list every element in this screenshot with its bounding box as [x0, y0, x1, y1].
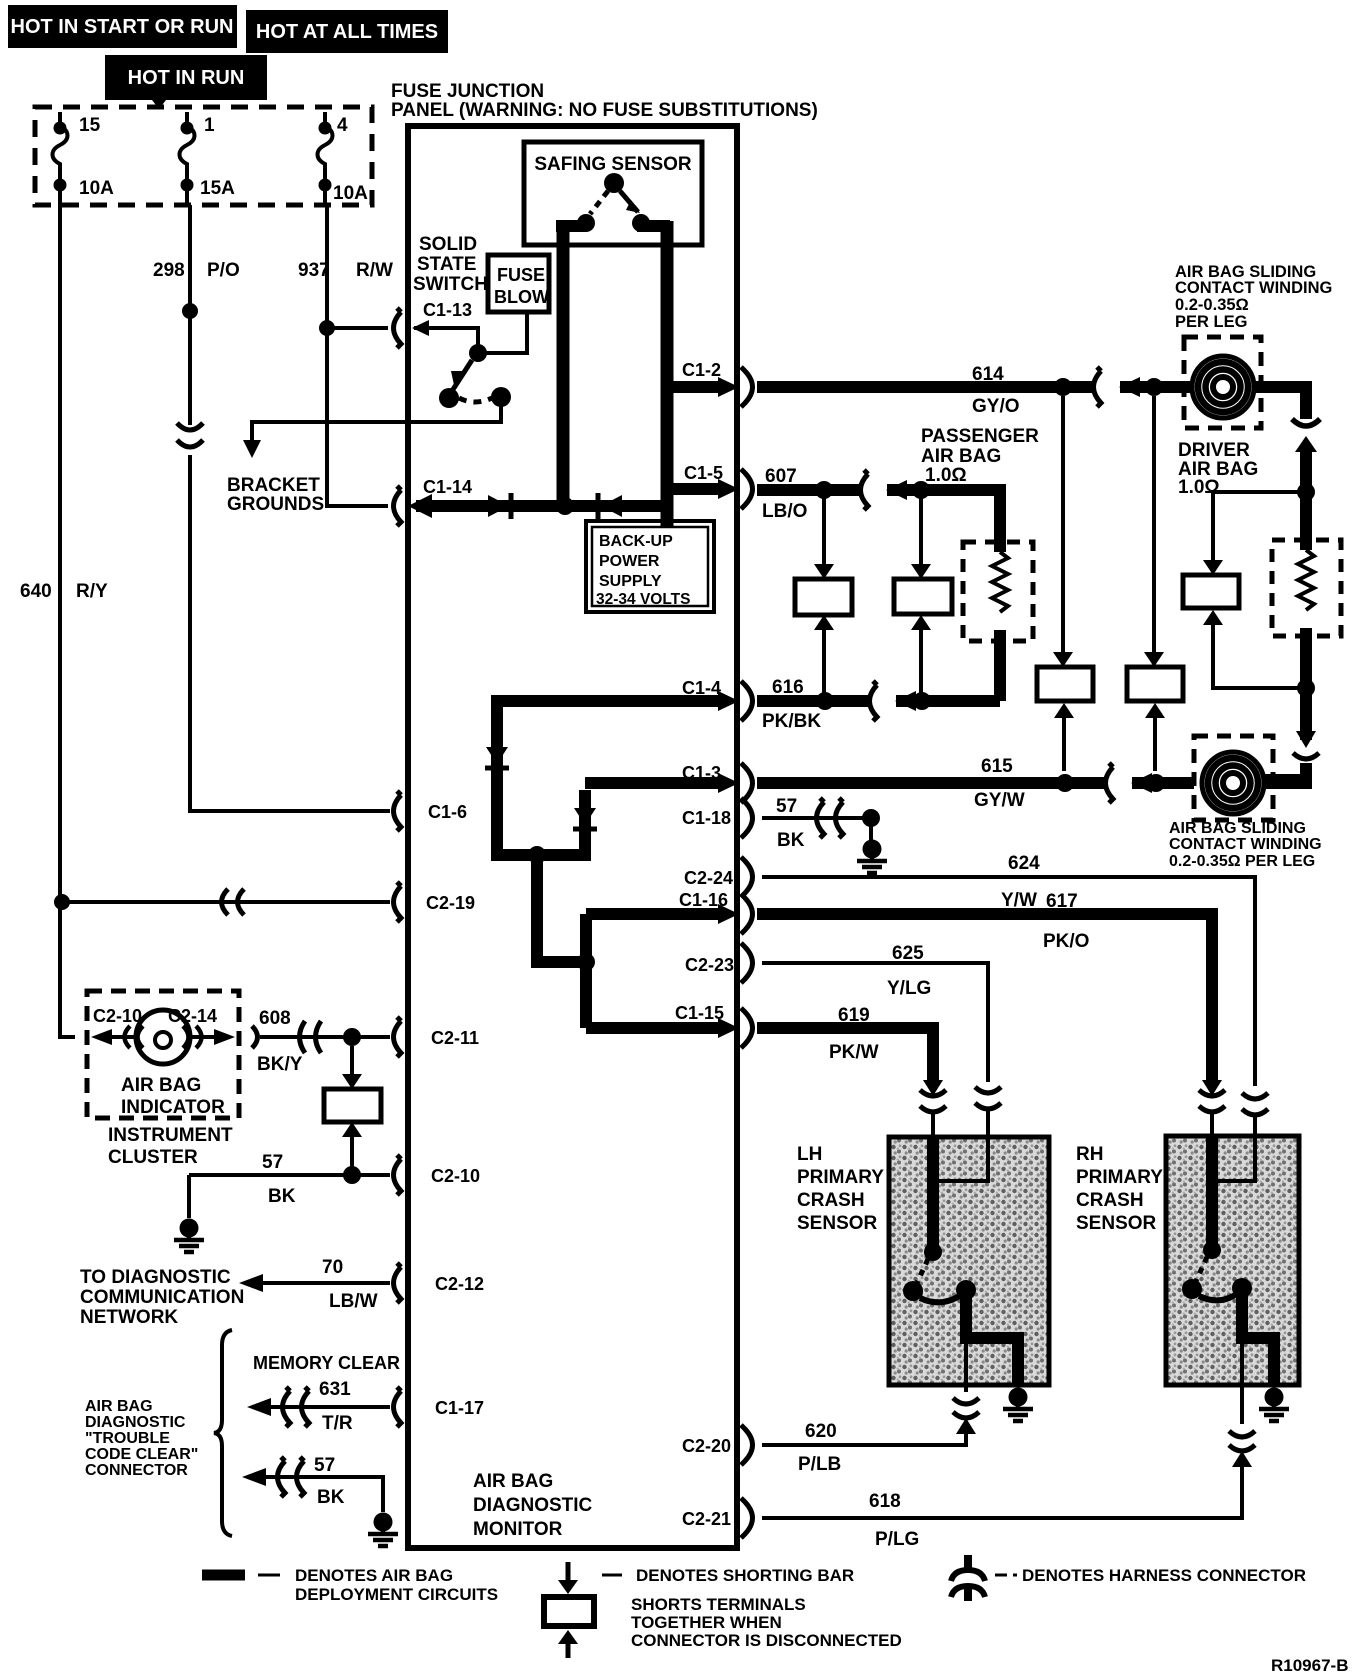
svg-text:608: 608	[259, 1008, 291, 1029]
svg-text:RH: RH	[1076, 1144, 1103, 1165]
svg-text:TOGETHER WHEN: TOGETHER WHEN	[631, 1613, 782, 1632]
svg-text:CRASH: CRASH	[797, 1190, 865, 1211]
svg-text:CODE CLEAR": CODE CLEAR"	[85, 1446, 198, 1463]
svg-text:15: 15	[79, 115, 101, 136]
svg-text:DRIVER: DRIVER	[1178, 440, 1250, 461]
svg-text:C2-20: C2-20	[682, 1436, 731, 1456]
svg-text:HOT AT ALL TIMES: HOT AT ALL TIMES	[256, 21, 438, 43]
svg-text:0.2-0.35Ω: 0.2-0.35Ω	[1175, 296, 1249, 314]
svg-text:298: 298	[153, 260, 185, 281]
svg-text:C2-21: C2-21	[682, 1509, 731, 1529]
svg-text:C2-10: C2-10	[93, 1006, 142, 1026]
svg-text:COMMUNICATION: COMMUNICATION	[80, 1287, 244, 1308]
svg-text:4: 4	[337, 115, 348, 136]
svg-text:617: 617	[1046, 891, 1078, 912]
svg-text:SOLID: SOLID	[419, 234, 477, 255]
svg-text:PK/BK: PK/BK	[762, 711, 821, 732]
svg-text:PANEL (WARNING: NO FUSE SUBSTI: PANEL (WARNING: NO FUSE SUBSTITUTIONS)	[391, 100, 818, 121]
svg-text:DENOTES AIR BAG: DENOTES AIR BAG	[295, 1566, 453, 1585]
svg-text:LB/O: LB/O	[762, 501, 807, 522]
svg-text:70: 70	[322, 1257, 343, 1278]
svg-text:C1-14: C1-14	[423, 477, 472, 497]
svg-text:Y/W: Y/W	[1001, 890, 1037, 911]
svg-text:P/O: P/O	[207, 260, 240, 281]
svg-text:AIR BAG: AIR BAG	[121, 1075, 201, 1096]
svg-text:57: 57	[314, 1455, 335, 1476]
svg-text:SENSOR: SENSOR	[797, 1213, 878, 1234]
svg-text:AIR BAG SLIDING: AIR BAG SLIDING	[1169, 820, 1306, 837]
svg-text:10A: 10A	[333, 183, 368, 204]
svg-text:616: 616	[772, 677, 804, 698]
svg-text:SUPPLY: SUPPLY	[599, 573, 662, 590]
svg-text:R/W: R/W	[356, 260, 393, 281]
svg-text:PASSENGER: PASSENGER	[921, 426, 1039, 447]
svg-text:C1-17: C1-17	[435, 1398, 484, 1418]
svg-text:DENOTES HARNESS CONNECTOR: DENOTES HARNESS CONNECTOR	[1022, 1566, 1306, 1585]
svg-text:MONITOR: MONITOR	[473, 1519, 563, 1540]
svg-text:DIAGNOSTIC: DIAGNOSTIC	[473, 1495, 593, 1516]
svg-text:607: 607	[765, 466, 797, 487]
svg-text:NETWORK: NETWORK	[80, 1307, 178, 1328]
svg-text:FUSE JUNCTION: FUSE JUNCTION	[391, 81, 544, 102]
svg-text:625: 625	[892, 943, 924, 964]
svg-text:PER LEG: PER LEG	[1175, 313, 1247, 331]
svg-text:P/LG: P/LG	[875, 1529, 919, 1550]
svg-text:CONNECTOR: CONNECTOR	[85, 1462, 188, 1479]
svg-text:937: 937	[298, 260, 330, 281]
svg-text:C2-24: C2-24	[684, 868, 733, 888]
svg-text:CLUSTER: CLUSTER	[108, 1147, 198, 1168]
svg-text:618: 618	[869, 1491, 901, 1512]
svg-text:PK/O: PK/O	[1043, 931, 1089, 952]
svg-text:CONNECTOR IS DISCONNECTED: CONNECTOR IS DISCONNECTED	[631, 1631, 902, 1650]
svg-text:32-34 VOLTS: 32-34 VOLTS	[596, 591, 690, 608]
svg-text:C2-23: C2-23	[685, 955, 734, 975]
svg-text:BK/Y: BK/Y	[257, 1054, 303, 1075]
svg-text:BACK-UP: BACK-UP	[599, 533, 673, 550]
svg-text:1.0Ω: 1.0Ω	[925, 465, 967, 486]
svg-text:614: 614	[972, 364, 1004, 385]
svg-text:LB/W: LB/W	[329, 1291, 378, 1312]
svg-text:BLOW: BLOW	[494, 287, 549, 307]
svg-text:POWER: POWER	[599, 553, 660, 570]
svg-text:GY/W: GY/W	[974, 790, 1025, 811]
svg-text:T/R: T/R	[322, 1413, 353, 1434]
svg-text:619: 619	[838, 1005, 870, 1026]
svg-text:LH: LH	[797, 1144, 822, 1165]
svg-text:R10967-B: R10967-B	[1271, 1656, 1349, 1675]
svg-text:631: 631	[319, 1379, 351, 1400]
svg-text:R/Y: R/Y	[76, 581, 108, 602]
svg-text:SAFING SENSOR: SAFING SENSOR	[534, 154, 692, 175]
svg-text:DEPLOYMENT CIRCUITS: DEPLOYMENT CIRCUITS	[295, 1585, 498, 1604]
svg-text:BK: BK	[317, 1487, 345, 1508]
svg-text:BRACKET: BRACKET	[227, 475, 320, 496]
svg-text:AIR BAG: AIR BAG	[921, 446, 1001, 467]
svg-text:C2-14: C2-14	[168, 1006, 217, 1026]
svg-text:57: 57	[262, 1152, 283, 1173]
svg-text:C1-15: C1-15	[675, 1003, 724, 1023]
svg-text:STATE: STATE	[417, 254, 476, 275]
svg-text:FUSE: FUSE	[497, 265, 545, 285]
svg-text:0.2-0.35Ω PER LEG: 0.2-0.35Ω PER LEG	[1169, 853, 1315, 870]
svg-text:57: 57	[776, 796, 797, 817]
svg-text:CONTACT WINDING: CONTACT WINDING	[1169, 836, 1322, 853]
svg-text:C1-2: C1-2	[682, 360, 721, 380]
svg-text:C1-18: C1-18	[682, 808, 731, 828]
svg-text:C1-13: C1-13	[423, 300, 472, 320]
svg-text:AIR BAG: AIR BAG	[85, 1398, 153, 1415]
svg-text:P/LB: P/LB	[798, 1454, 841, 1475]
svg-text:TO DIAGNOSTIC: TO DIAGNOSTIC	[80, 1267, 231, 1288]
svg-text:615: 615	[981, 756, 1013, 777]
svg-text:620: 620	[805, 1421, 837, 1442]
svg-text:DENOTES SHORTING BAR: DENOTES SHORTING BAR	[636, 1566, 854, 1585]
svg-text:PRIMARY: PRIMARY	[797, 1167, 884, 1188]
svg-text:INSTRUMENT: INSTRUMENT	[108, 1125, 233, 1146]
svg-text:SENSOR: SENSOR	[1076, 1213, 1157, 1234]
svg-text:C1-6: C1-6	[428, 802, 467, 822]
svg-text:AIR BAG: AIR BAG	[473, 1471, 553, 1492]
svg-text:C2-12: C2-12	[435, 1274, 484, 1294]
svg-text:15A: 15A	[200, 178, 235, 199]
svg-text:640: 640	[20, 581, 52, 602]
svg-text:10A: 10A	[79, 178, 114, 199]
svg-text:C2-19: C2-19	[426, 893, 475, 913]
svg-text:PRIMARY: PRIMARY	[1076, 1167, 1163, 1188]
svg-text:BK: BK	[777, 830, 805, 851]
svg-text:CRASH: CRASH	[1076, 1190, 1144, 1211]
svg-text:SWITCH: SWITCH	[413, 274, 488, 295]
svg-text:HOT IN RUN: HOT IN RUN	[128, 67, 245, 89]
svg-text:GY/O: GY/O	[972, 396, 1020, 417]
svg-text:C1-5: C1-5	[684, 463, 723, 483]
svg-text:624: 624	[1008, 853, 1040, 874]
svg-text:HOT IN START OR RUN: HOT IN START OR RUN	[11, 16, 234, 38]
svg-text:INDICATOR: INDICATOR	[121, 1097, 225, 1118]
svg-text:GROUNDS: GROUNDS	[227, 494, 324, 515]
svg-text:BK: BK	[268, 1186, 296, 1207]
svg-text:PK/W: PK/W	[829, 1042, 879, 1063]
svg-text:C2-10: C2-10	[431, 1166, 480, 1186]
svg-text:"TROUBLE: "TROUBLE	[85, 1430, 170, 1447]
svg-text:DIAGNOSTIC: DIAGNOSTIC	[85, 1414, 186, 1431]
svg-text:C2-11: C2-11	[431, 1028, 479, 1048]
svg-text:MEMORY CLEAR: MEMORY CLEAR	[253, 1353, 400, 1373]
svg-text:CONTACT WINDING: CONTACT WINDING	[1175, 279, 1332, 297]
svg-text:SHORTS TERMINALS: SHORTS TERMINALS	[631, 1595, 806, 1614]
svg-text:Y/LG: Y/LG	[887, 978, 931, 999]
svg-text:1: 1	[204, 115, 215, 136]
